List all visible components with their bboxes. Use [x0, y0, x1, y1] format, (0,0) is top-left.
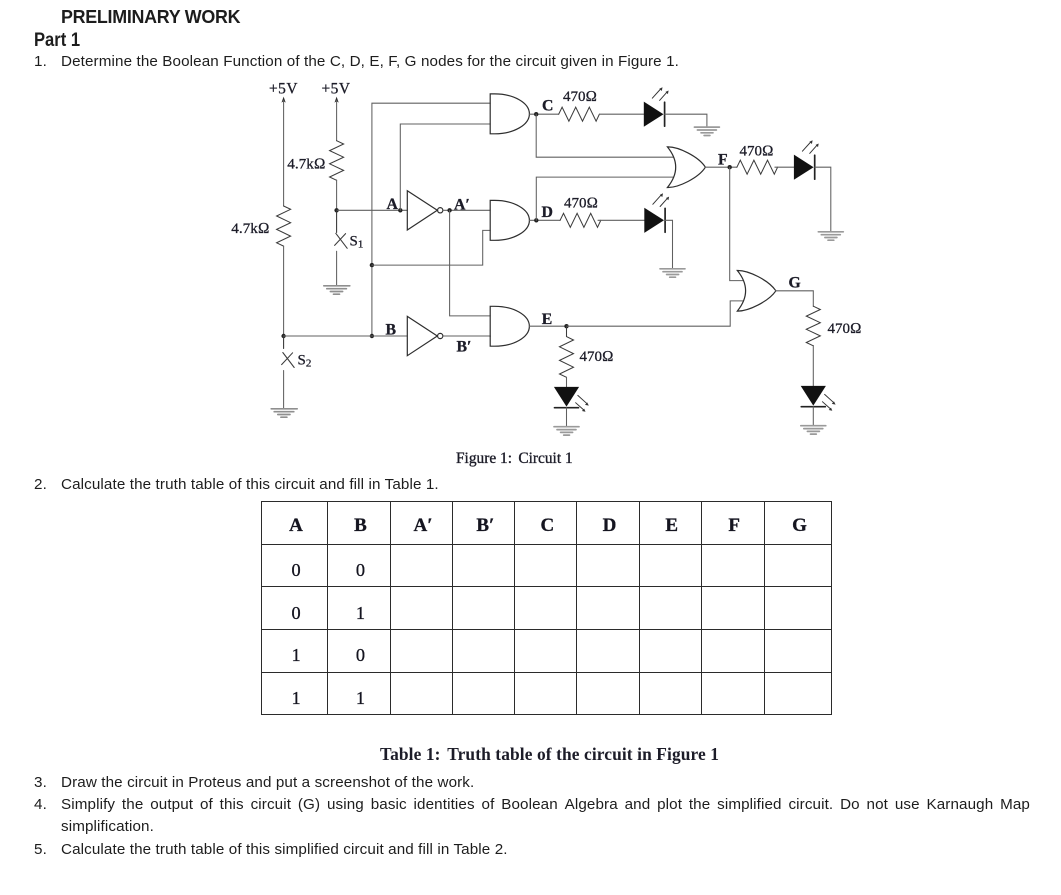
- node D junction: [534, 218, 538, 222]
- resistor R2 4.7k label: [287, 156, 325, 173]
- ground GND-S2: [271, 409, 297, 417]
- wire A' down to AND E input 1: [450, 210, 491, 316]
- node E label: [542, 311, 553, 328]
- LED5 (node G): [801, 386, 836, 411]
- node junction B-column lower: [370, 334, 374, 338]
- node C label: [542, 98, 553, 115]
- ground GND-F: [818, 232, 843, 240]
- wire LED4 to ground: [815, 167, 831, 231]
- node rail2 junction: [334, 208, 338, 212]
- svg-text:+5V: +5V: [322, 81, 351, 98]
- wire E to OR G input 2: [567, 301, 744, 326]
- svg-text:B: B: [386, 322, 397, 339]
- wire rail2 to switch S1: [336, 210, 338, 232]
- truth table: [261, 501, 832, 715]
- item 2: [34, 476, 47, 493]
- svg-text:B′: B′: [457, 339, 472, 356]
- node A' junction: [447, 208, 451, 212]
- node E junction: [564, 324, 568, 328]
- wire rail2 to node A row: [336, 180, 338, 210]
- wire AND C output: [529, 113, 558, 115]
- node A' label: [454, 197, 470, 214]
- svg-text:4.7kΩ: 4.7kΩ: [287, 156, 325, 173]
- CIRCUIT FIGURE SVG: [0, 0, 1061, 470]
- svg-text:C: C: [542, 98, 553, 115]
- AND gate C: [490, 94, 529, 134]
- resistor R3: [559, 107, 600, 121]
- svg-text:S2: S2: [298, 353, 312, 370]
- resistor R2: [330, 141, 344, 181]
- wire B' to AND E input 2: [443, 335, 490, 338]
- inverter U1 (A to A'): [407, 191, 443, 230]
- switch S1 label: [350, 234, 364, 251]
- wire D up to OR F input 2: [536, 177, 673, 220]
- resistor R4 470 label: [564, 196, 598, 212]
- resistor R7 470 label: [828, 321, 862, 337]
- svg-text:470Ω: 470Ω: [580, 349, 614, 365]
- wire R6 to LED4: [775, 166, 794, 168]
- heading: [61, 6, 240, 28]
- wire R5 to LED3: [566, 377, 568, 387]
- svg-text:S1: S1: [350, 234, 364, 251]
- item 4: [34, 796, 47, 813]
- resistor R1 4.7k label: [231, 220, 269, 237]
- item 5: [34, 841, 47, 858]
- ground GND-G: [801, 426, 826, 434]
- item 3: [34, 774, 47, 791]
- +5V source V2 arrow: [335, 97, 339, 103]
- svg-text:470Ω: 470Ω: [563, 89, 597, 105]
- node rail1-B junction: [281, 334, 285, 338]
- LED4 (node F): [794, 140, 819, 180]
- node B label: [386, 322, 397, 339]
- svg-text:F: F: [718, 152, 728, 169]
- node G label: [789, 275, 801, 292]
- svg-text:G: G: [789, 275, 801, 292]
- wire OR G output: [776, 291, 814, 306]
- node B' label: [457, 339, 472, 356]
- resistor R3 470 label: [563, 89, 597, 105]
- svg-text:A: A: [387, 196, 399, 213]
- wire R4 to LED2: [598, 219, 644, 221]
- wire LED5 to ground: [812, 407, 814, 425]
- wire R3 to LED1: [599, 113, 643, 115]
- wire switch S1 to ground: [336, 251, 338, 285]
- ground GND-S1: [324, 286, 350, 294]
- wire B branch to AND D input 2: [372, 230, 490, 265]
- wire rail2 top: [336, 101, 338, 141]
- wire rail1 mid: [283, 246, 285, 336]
- +5V source V1 label: [269, 81, 298, 98]
- resistor R6: [737, 160, 778, 174]
- switch S1: [335, 233, 348, 248]
- OR gate G: [737, 270, 776, 311]
- wire B row: [284, 335, 408, 337]
- resistor R5 470 label: [580, 349, 614, 365]
- resistor R6 470 label: [739, 144, 773, 160]
- figure caption: [456, 450, 573, 468]
- ground GND-E: [554, 427, 579, 435]
- LED3 (node E): [554, 387, 589, 412]
- node D label: [542, 204, 553, 221]
- node C junction: [534, 112, 538, 116]
- node F junction: [728, 165, 732, 169]
- node F label: [718, 152, 728, 169]
- wire R7 to LED5: [812, 346, 814, 386]
- node A junction: [398, 208, 402, 212]
- svg-text:E: E: [542, 311, 553, 328]
- +5V source V1 arrow: [282, 97, 286, 103]
- svg-text:A′: A′: [454, 197, 470, 214]
- table caption: [380, 744, 719, 765]
- AND gate D: [490, 200, 529, 240]
- wire A' to AND D input 1: [443, 209, 490, 211]
- inverter U2 (B to B'): [407, 316, 443, 355]
- node junction B-column upper: [370, 263, 374, 267]
- svg-text:470Ω: 470Ω: [739, 144, 773, 160]
- wire LED2 to ground: [665, 220, 672, 268]
- LED1 (node C): [644, 87, 669, 127]
- switch S2: [282, 353, 295, 368]
- wire AND E output: [529, 325, 566, 327]
- OR gate F: [667, 147, 705, 188]
- svg-text:D: D: [542, 204, 553, 221]
- ground GND-C: [694, 127, 719, 135]
- +5V source V2 label: [322, 81, 351, 98]
- wire OR F output: [705, 166, 737, 168]
- wire rail1 top: [283, 101, 285, 207]
- wire LED3 to ground: [566, 408, 568, 426]
- wire rail1 to switch: [283, 336, 285, 349]
- wire F down to OR G input 1: [730, 167, 744, 280]
- wire LED1 to ground: [665, 114, 707, 126]
- svg-text:470Ω: 470Ω: [564, 196, 598, 212]
- wire node to inverter U1 input: [337, 209, 408, 211]
- svg-text:470Ω: 470Ω: [828, 321, 862, 337]
- AND gate E: [490, 306, 529, 346]
- wire AND D output: [529, 219, 560, 221]
- wire switch S2 to ground: [283, 371, 285, 409]
- wire net-B vertical (to AND C input 1): [372, 103, 490, 336]
- wire C down to OR F input 1: [536, 114, 673, 157]
- resistor R1: [277, 206, 291, 246]
- resistor R5: [560, 326, 574, 377]
- svg-text:4.7kΩ: 4.7kΩ: [231, 220, 269, 237]
- wire A up to AND C input 2: [400, 124, 490, 210]
- ground GND-D: [660, 269, 685, 277]
- switch S2 label: [298, 353, 312, 370]
- node A label: [387, 196, 399, 213]
- LED2 (node D): [644, 193, 669, 233]
- item 1: [34, 53, 47, 70]
- resistor R4: [560, 213, 601, 227]
- resistor R7: [806, 306, 820, 346]
- svg-text:+5V: +5V: [269, 81, 298, 98]
